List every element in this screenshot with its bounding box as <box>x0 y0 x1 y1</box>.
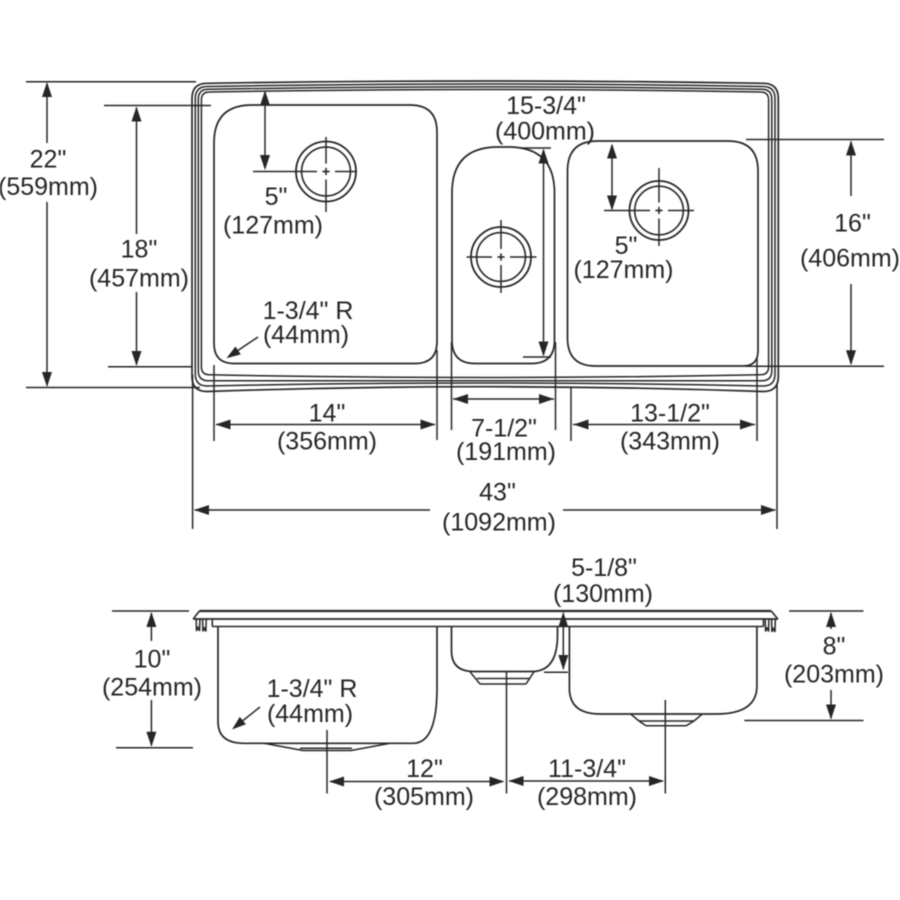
dim 18in arrow down <box>132 351 142 366</box>
middle bowl drain hole inner circle <box>477 233 526 282</box>
dim 18in line upper segment <box>136 108 138 235</box>
dim 12in line <box>330 781 503 783</box>
left bowl drain right slant <box>351 743 390 750</box>
svg-text:(254mm): (254mm) <box>102 674 202 702</box>
svg-text:5-1/8": 5-1/8" <box>571 554 637 582</box>
right bowl section profile <box>569 627 757 714</box>
dim 10in line lower segment <box>150 700 152 746</box>
dim 5-1/8in line <box>562 613 564 669</box>
right bowl (top view) <box>568 141 759 366</box>
dim 22in top extension line <box>26 81 196 83</box>
dim 16in bottom extension line <box>745 365 884 367</box>
dim 16in arrow down <box>846 350 856 365</box>
svg-text:(400mm): (400mm) <box>495 118 595 146</box>
sink outer rim outline 1 (top view) <box>192 81 778 392</box>
dim 15-3/4in top ref line <box>521 147 551 149</box>
svg-text:(457mm): (457mm) <box>89 265 189 293</box>
dim 43in left extension line <box>192 375 194 530</box>
dim 8in top extension line <box>789 610 864 612</box>
dim 43in line left segment <box>195 509 431 511</box>
dim 14in line <box>216 424 435 426</box>
dim 11-3/4in line <box>509 780 663 782</box>
middle bowl drain bottom line <box>480 683 526 685</box>
dim 7-1/2in arrow right <box>539 394 554 404</box>
svg-text:16": 16" <box>834 210 871 238</box>
right bowl drain centerline <box>664 700 666 794</box>
dim 8in arrow down <box>826 705 836 720</box>
right bowl drain line1 <box>639 720 694 722</box>
dim 5in left arrow down <box>260 155 270 170</box>
section rim left step <box>211 619 213 627</box>
section rim left bevel <box>193 611 199 619</box>
sink rim outline 3 <box>198 87 772 381</box>
middle bowl drain hole outer circle <box>471 227 531 287</box>
dim 13-1/2in line <box>573 424 755 426</box>
svg-text:11-3/4": 11-3/4" <box>548 755 626 783</box>
dim 10in arrow up <box>146 612 156 627</box>
dim 43in line right segment <box>563 509 776 511</box>
svg-text:(343mm): (343mm) <box>620 428 720 456</box>
dim 14in left extension line <box>213 365 215 441</box>
right bowl drain left slant <box>631 714 639 721</box>
dim 13-1/2in right extension line <box>756 358 758 441</box>
right bowl drain hole outer circle <box>630 181 689 240</box>
radius callout arrowhead (top view) <box>227 347 241 359</box>
dim 43in arrow right <box>761 505 776 515</box>
svg-text:12": 12" <box>406 755 443 783</box>
dim 12in arrow right <box>490 777 505 787</box>
svg-text:14": 14" <box>309 400 346 428</box>
radius callout leader (top view) <box>233 337 258 354</box>
svg-text:(130mm): (130mm) <box>553 580 653 608</box>
radius callout leader (section) <box>238 707 260 725</box>
middle bowl (top view) <box>452 147 555 364</box>
dim 22in bottom extension line <box>26 387 200 389</box>
dim 7-1/2in arrow left <box>453 394 468 404</box>
dim 12in arrow left <box>329 777 344 787</box>
dim 14in arrow left <box>216 420 231 430</box>
left mounting clip <box>196 620 206 632</box>
dim 13-1/2in arrow left <box>574 420 589 430</box>
dim 43in arrow left <box>194 505 209 515</box>
dim 15-3/4in arrow down <box>539 342 549 357</box>
right bowl drain line2 <box>646 725 686 727</box>
section rim right step <box>762 619 764 627</box>
svg-text:(191mm): (191mm) <box>456 438 556 466</box>
svg-text:(305mm): (305mm) <box>374 783 474 811</box>
dim 5in right bowl line <box>611 145 613 209</box>
svg-text:(406mm): (406mm) <box>800 245 900 273</box>
right bowl drain slant inner right <box>686 721 694 726</box>
svg-text:8": 8" <box>823 633 846 661</box>
dim 16in line upper segment <box>850 142 852 197</box>
dim 43in right extension line <box>776 384 778 529</box>
dim 11-3/4in arrow right <box>649 776 664 786</box>
dim 18in arrow up <box>132 107 142 122</box>
dim 8in line lower segment <box>830 690 832 719</box>
svg-text:(44mm): (44mm) <box>267 700 353 728</box>
dim 8in bottom extension line <box>744 720 863 722</box>
left hole centerline crosshair <box>253 171 317 173</box>
dim 8in arrow up <box>826 612 836 627</box>
dim 10in arrow down <box>146 732 156 747</box>
dim 5-1/8in arrow up <box>558 612 568 627</box>
dim 18in bottom extension line <box>108 366 192 368</box>
svg-text:18": 18" <box>121 236 158 264</box>
svg-text:(203mm): (203mm) <box>784 661 884 689</box>
svg-text:5": 5" <box>265 183 288 211</box>
dim 7-1/2in left extension line <box>451 342 453 430</box>
section rim bottom line <box>212 626 763 628</box>
middle hole centerline crosshair <box>467 256 493 258</box>
dim 10in bottom extension line <box>116 747 193 749</box>
right bowl drain hole inner circle <box>635 186 684 235</box>
middle bowl drain right slant <box>526 672 534 684</box>
svg-text:(298mm): (298mm) <box>537 783 637 811</box>
svg-text:13-1/2": 13-1/2" <box>630 400 710 428</box>
left bowl (top view) <box>214 105 437 364</box>
left bowl faucet hole outer circle <box>296 142 356 202</box>
svg-text:(127mm): (127mm) <box>573 256 673 284</box>
section rim right bevel <box>771 611 778 619</box>
svg-text:(559mm): (559mm) <box>0 173 98 201</box>
sink rim outline 4 (inner deck edge) <box>201 90 768 378</box>
dim 16in line lower segment <box>850 284 852 364</box>
svg-text:15-3/4": 15-3/4" <box>506 92 586 120</box>
section rim top line <box>199 610 771 612</box>
svg-text:22": 22" <box>30 146 67 174</box>
dim 5in right arrow down <box>607 196 617 211</box>
middle bowl drain centerline <box>506 672 508 794</box>
dim 15-3/4in arrow up <box>539 149 549 164</box>
svg-text:43": 43" <box>479 479 516 507</box>
sink rim outline 2 <box>195 84 775 386</box>
dim 13-1/2in left extension line <box>570 388 572 441</box>
dim 22in line upper segment <box>46 84 48 144</box>
svg-text:(1092mm): (1092mm) <box>442 509 556 537</box>
right hole centerline crosshair <box>604 210 650 212</box>
svg-text:(356mm): (356mm) <box>277 428 377 456</box>
left bowl drain left slant <box>264 743 303 750</box>
dim 15-3/4in line <box>543 150 545 355</box>
svg-text:1-3/4" R: 1-3/4" R <box>267 675 358 703</box>
dim 18in line lower segment <box>136 292 138 365</box>
dim 13-1/2in arrow right <box>740 420 755 430</box>
dim 22in arrow up <box>42 82 52 97</box>
left bowl faucet hole inner circle <box>302 147 351 196</box>
dim 10in line upper segment <box>150 613 152 641</box>
left bowl section profile <box>218 627 437 744</box>
left bowl drain centerline <box>326 730 328 794</box>
dim 14in right extension line <box>436 350 438 440</box>
dim 14in arrow right <box>421 420 436 430</box>
right bowl drain slant inner left <box>639 721 646 726</box>
dim 22in arrow down <box>42 372 52 387</box>
svg-text:10": 10" <box>134 646 171 674</box>
dim 16in arrow up <box>846 141 856 156</box>
dim 8in line upper segment <box>830 613 832 629</box>
dim 5-1/8in arrow down <box>558 655 568 670</box>
middle bowl drain left slant <box>470 672 480 684</box>
middle bowl drain mid line <box>477 678 530 680</box>
left bowl drain bottom line <box>303 750 351 752</box>
dim 15-3/4in bottom ref line <box>523 356 551 358</box>
dim 5in left arrow up <box>260 91 270 106</box>
dim 5-1/8in bottom ref line <box>544 671 568 673</box>
section rim middle line <box>193 618 778 620</box>
dim 22in line lower segment <box>46 202 48 386</box>
svg-text:(44mm): (44mm) <box>263 321 349 349</box>
dim 10in top extension line <box>112 610 189 612</box>
right bowl drain right slant <box>694 714 702 721</box>
dim 11-3/4in arrow left <box>509 776 524 786</box>
middle bowl section profile <box>452 627 558 672</box>
dim 7-1/2in line <box>453 398 554 400</box>
dim 7-1/2in right extension line <box>555 342 557 430</box>
radius callout arrowhead (section) <box>232 717 246 730</box>
dim 18in top extension line <box>104 105 211 107</box>
left bowl drain mid line <box>300 747 352 749</box>
right mounting clip <box>765 620 775 633</box>
dim 5in left bowl line <box>264 92 266 169</box>
svg-text:(127mm): (127mm) <box>223 212 323 240</box>
dim 5in right arrow up <box>607 144 617 159</box>
dim 16in top extension line <box>746 139 884 141</box>
